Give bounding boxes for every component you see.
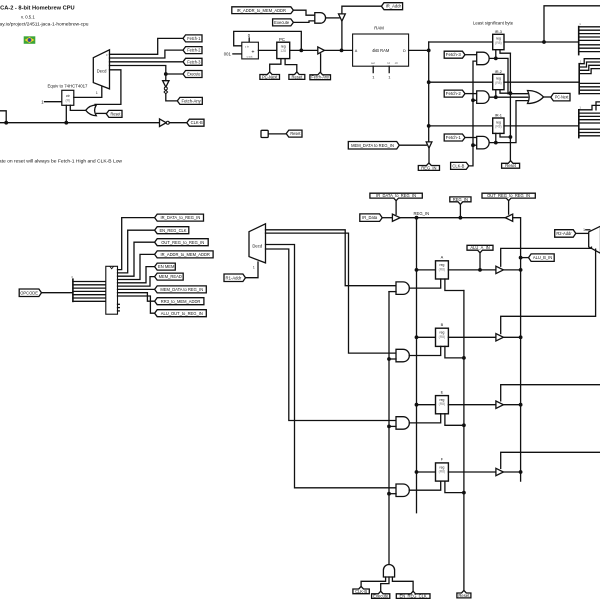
wire Execute to AND — [381, 577, 389, 591]
svg-text:Equiv to 74HCT4017: Equiv to 74HCT4017 — [48, 83, 88, 88]
wire IR-2 Q to splitter — [504, 81, 579, 83]
wire read-out2 to reg E output enable — [501, 385, 600, 401]
wire Execute tunnel to AND gate — [293, 21, 314, 23]
wire decoder read-out1 to reg B output enable — [501, 249, 596, 334]
svg-text:RAM: RAM — [374, 26, 384, 31]
wire buffer input from out bus — [513, 218, 521, 481]
wire decoder out0 to Fetch-1 tunnel — [110, 38, 184, 54]
wire CLK stub at left edge — [0, 111, 6, 123]
splitter SP3 stepped branch 0 — [579, 105, 600, 109]
junction EN rail to AND E — [387, 425, 391, 429]
svg-text:1: 1 — [96, 91, 98, 95]
splitter SP4 opcode — [72, 279, 74, 301]
wire RAM ld pin — [388, 66, 390, 72]
decoder U19 Decd register select read — [589, 226, 600, 253]
wire IR-3 branch to top edge bus — [544, 6, 600, 42]
svg-text:ay.io/project/24511-jaca-1-hom: ay.io/project/24511-jaca-1-homebrew-cpu — [0, 22, 89, 27]
tunnel PC-Next clock in — [260, 72, 280, 80]
svg-text:Least significant byte: Least significant byte — [473, 20, 514, 25]
svg-text:IR-1: IR-1 — [495, 113, 502, 118]
wire reset rail vertical — [463, 291, 465, 591]
splitter SP2 stepped branch 3 — [579, 69, 600, 74]
tunnel Execute out — [183, 71, 202, 78]
svg-text:ALU_B_IN: ALU_B_IN — [533, 255, 552, 260]
svg-text:1: 1 — [253, 265, 255, 269]
svg-text:tate on reset will always be F: tate on reset will always be Fetch-1 Hig… — [0, 158, 123, 163]
and-gate reg E clock — [396, 417, 409, 430]
wire REG_IN tunnel to bus — [459, 204, 461, 217]
junction Execute branch — [164, 72, 168, 76]
wire PC reset to Reset tunnel — [285, 59, 297, 72]
wire Fetch-3 to AND — [465, 54, 477, 56]
junction ALU_B_IN — [519, 256, 523, 260]
wire decoder out0 to reg A clock AND — [266, 230, 397, 286]
tunnel IR_DATA_to_REG_IN enable — [370, 193, 422, 201]
wire CLK-B to AND-2 — [473, 99, 477, 101]
svg-text:JACA-2 - 8-bit Homebrew CPU: JACA-2 - 8-bit Homebrew CPU — [0, 6, 75, 12]
register IR-3 — [493, 34, 504, 49]
tunnel EN MEM out — [155, 263, 176, 270]
svg-text:001: 001 — [224, 52, 232, 57]
tri-state buffer reg B to out bus — [496, 334, 504, 341]
tunnel Reset (counter) — [106, 110, 122, 117]
wire decoder out5 to counter reset OR gate — [95, 70, 121, 108]
svg-text:Fetch-Any: Fetch-Any — [311, 75, 329, 80]
tunnel Fetch-1 in — [444, 134, 465, 141]
svg-text:(R8): (R8) — [439, 470, 446, 474]
wire bus to reg E D input — [417, 404, 436, 406]
diamond junction marker — [164, 90, 168, 93]
wire ALU_A_IN tap — [479, 253, 481, 270]
svg-text:Reset: Reset — [505, 163, 517, 168]
tunnel IR_ADDR_to_MEM_ADDR out — [155, 251, 214, 258]
svg-text:ld: ld — [388, 61, 391, 65]
junction CLK stub — [4, 121, 8, 125]
register B — [436, 328, 449, 346]
svg-text:D: D — [403, 49, 406, 53]
tri-state buffer U9 PC to address bus — [318, 47, 325, 54]
wire EN_REG_CLK to AND — [392, 577, 413, 591]
junction IR-3 top branch — [542, 40, 546, 44]
splitter SP2 IR-2 byte — [578, 64, 580, 94]
svg-text:CLK-B: CLK-B — [191, 120, 203, 125]
wire decoder out RR3_to_MEM_ADDR — [118, 293, 155, 302]
junction data to IR-1 — [427, 124, 431, 128]
junction EN rail to AND B — [387, 357, 391, 361]
splitter SP2 branch 7 — [579, 93, 600, 95]
svg-text:IR-3: IR-3 — [495, 29, 502, 34]
svg-text:v. 0.5.1: v. 0.5.1 — [21, 15, 35, 20]
svg-text:R2-Addr: R2-Addr — [556, 231, 572, 236]
wire reg E reset stub — [445, 414, 464, 426]
wire PC output to buffer — [290, 49, 318, 51]
junction out bus reg E — [519, 403, 523, 407]
tunnel MEM_DATA to REG_IN out — [155, 286, 207, 293]
tunnel Fetch-Any out — [177, 97, 202, 104]
wire AND A output to reg clock — [409, 279, 440, 288]
svg-text:CLK-B: CLK-B — [355, 589, 367, 594]
wire decoder out IR_DATA_to_REG_IN — [118, 218, 155, 270]
junction REG_IN bus to reg E — [415, 403, 419, 407]
svg-text:Execute: Execute — [373, 594, 389, 599]
tunnel REG_IN in — [450, 197, 471, 205]
splitter SP3 branch 7 — [579, 132, 600, 134]
splitter SP4 branch 2 — [73, 287, 106, 289]
wire CLK-B to AND — [361, 577, 386, 586]
svg-text:(R8): (R8) — [439, 267, 446, 271]
wire reg A reset stub — [445, 279, 464, 291]
tunnel Execute bottom in — [372, 591, 390, 598]
wire IR-1 reset stub — [500, 133, 510, 137]
tunnel OUT_REG_to_REG_IN out — [155, 239, 209, 246]
splitter SP2 stepped branch 1 — [579, 62, 600, 67]
junction PC output feedback — [299, 49, 303, 53]
tunnel Fetch-2 out — [183, 47, 202, 54]
tunnel CLK-B in — [451, 162, 469, 169]
tunnel EN_REG_CLK out — [155, 227, 189, 234]
decoder U15 unused pin 1 — [118, 307, 120, 309]
svg-text:Fetch-3: Fetch-3 — [446, 52, 462, 57]
tunnel Reset (PC) — [289, 72, 305, 80]
register A — [436, 261, 449, 279]
splitter SP1 branch 6 — [579, 47, 600, 49]
wire Fetch-2 to AND — [465, 93, 477, 95]
wire AND E lower input from EN_REG_CLK rail — [389, 425, 396, 427]
tri-state buffer reg A to out bus — [496, 266, 504, 273]
wire constant to counter — [45, 101, 62, 103]
svg-text:CLK-B: CLK-B — [452, 164, 464, 169]
tri-state buffer reg F to out bus — [496, 468, 504, 475]
wire pin to Reset tunnel — [268, 133, 286, 135]
svg-text:IR_DATA_to_REG_IN: IR_DATA_to_REG_IN — [160, 215, 200, 220]
splitter SP1 branch 0 — [579, 26, 600, 28]
tunnel Fetch-1 out — [183, 35, 202, 42]
junction reset reg E — [462, 423, 466, 427]
wire IR_Addr to address buffer — [342, 6, 382, 14]
wire inverter to CLK-B tunnel — [169, 122, 187, 124]
tunnel ALU_B_IN out — [529, 254, 555, 262]
svg-text:PC-Next: PC-Next — [262, 74, 278, 79]
Brazil flag icon — [24, 36, 36, 44]
memory RAM 4kB — [353, 34, 409, 66]
tunnel IR_Data in — [360, 214, 382, 222]
svg-text:Decd: Decd — [97, 68, 107, 73]
svg-text:IR_Data: IR_Data — [362, 215, 378, 220]
wire PC clock to PC-Next tunnel — [270, 59, 281, 72]
tunnel Fetch-Any in — [310, 72, 331, 80]
svg-text:A: A — [441, 255, 444, 260]
wire IR-2 reset stub — [500, 90, 510, 94]
svg-text:RR3_to_MEM_ADDR: RR3_to_MEM_ADDR — [161, 299, 201, 304]
svg-text:IR_Addr: IR_Addr — [386, 4, 402, 9]
svg-text:Fetch-1: Fetch-1 — [187, 36, 201, 41]
wire decoder out3 to reg E clock AND — [266, 249, 397, 421]
decoder U15 unused pin 0 — [118, 303, 120, 305]
wire R2-Addr to decoder — [576, 232, 589, 234]
wire ALU_B_IN tap — [521, 257, 529, 259]
junction ALU_A_IN — [478, 268, 482, 272]
wire counter clock to CLK rail — [65, 105, 67, 122]
svg-text:OUT_REG_to_REG_IN: OUT_REG_to_REG_IN — [161, 240, 204, 245]
input pin clock square — [261, 130, 268, 137]
svg-text:c in: c in — [245, 44, 250, 48]
wire decoder out1 to Fetch-2 tunnel — [110, 50, 184, 58]
svg-text:Fetch-2: Fetch-2 — [187, 48, 201, 53]
junction CLK-B to AND-2 — [471, 98, 475, 102]
junction IR-1 clock — [494, 141, 498, 145]
junction REG_IN tunnel tap — [459, 216, 463, 220]
tunnel Reset (clock pin) — [286, 130, 302, 137]
svg-text:EN MEM: EN MEM — [158, 264, 175, 269]
splitter SP2 stepped branch 2 — [579, 65, 600, 70]
splitter SP3 branch 8 — [579, 135, 600, 137]
wire decoder out ALU_OUT_to_REG_IN — [118, 296, 155, 313]
wire data to IR-3 D — [429, 41, 493, 43]
junction REG_IN bus to register column — [415, 216, 419, 220]
svg-text:Fetch-3: Fetch-3 — [187, 59, 201, 64]
junction counter clock on CLK rail — [64, 121, 68, 125]
wire buffer B to out bus — [503, 336, 520, 338]
wire CLK-B rail up the IR column — [469, 61, 477, 166]
wire IR_Data to buffer — [382, 217, 392, 219]
svg-text:MEM_READ: MEM_READ — [159, 274, 182, 279]
register IR-1 — [493, 118, 504, 133]
wire IR-2 clock stub — [495, 90, 497, 98]
wire AND-2 output to IR-2 clock and OR — [489, 96, 528, 98]
wire AND B lower input from EN_REG_CLK rail — [389, 358, 396, 360]
wire buffer A to out bus — [503, 269, 520, 271]
wire decoder out2 to reg F clock AND — [266, 245, 397, 488]
wire AND-1 output to IR-1 clock and OR — [489, 101, 528, 143]
wire AND E output to reg clock — [409, 414, 440, 423]
tri-state buffer U10 mem data to REG_IN — [426, 142, 432, 148]
wire reg B Q to buffer — [448, 336, 496, 338]
svg-text:Execute: Execute — [274, 20, 290, 25]
wire reg F Q to buffer — [448, 471, 496, 473]
splitter SP2 branch 4 — [579, 82, 600, 84]
svg-text:Decd: Decd — [252, 243, 262, 248]
wire AND A lower input from EN_REG_CLK rail — [389, 291, 396, 293]
splitter SP3 branch 5 — [579, 122, 600, 124]
svg-text:1: 1 — [583, 228, 585, 232]
junction out bus reg A — [519, 268, 523, 272]
junction IR-2 reset — [509, 91, 513, 95]
tunnel IR_DATA_to_REG_IN out — [155, 214, 204, 221]
register F — [436, 463, 449, 481]
junction REG_IN bus to reg F — [415, 470, 419, 474]
splitter SP1 branch 1 — [579, 29, 600, 31]
splitter SP4 branch 4 — [73, 294, 106, 296]
wire OR output to counter reset pin — [70, 105, 85, 110]
wire RAM D to data node — [409, 49, 429, 51]
svg-text:Reset: Reset — [292, 74, 304, 79]
splitter SP1 branch 4 — [579, 39, 600, 41]
wire bus to reg B D input — [417, 336, 436, 338]
wire decoder out MEM_READ — [118, 277, 155, 287]
tunnel MEM_DATA to REG_IN enable — [348, 142, 399, 150]
wire decoder out1 to reg B clock AND — [266, 233, 397, 353]
wire AND F output to reg clock — [409, 481, 440, 490]
svg-text:(R8): (R8) — [439, 335, 446, 339]
svg-text:Fetch-1: Fetch-1 — [446, 135, 462, 140]
wire 001 to adder — [233, 53, 242, 55]
wire buffer to RAM A — [324, 49, 352, 51]
wire data to IR-1 D — [429, 125, 493, 127]
tunnel R2-Addr in — [555, 230, 576, 238]
tunnel OPCODE in — [19, 289, 41, 297]
junction CLK-B to AND-1 — [471, 143, 475, 147]
svg-text:MEM_DATA to REG_IN: MEM_DATA to REG_IN — [160, 287, 203, 292]
wire IR_ADDR tunnel to AND gate — [293, 10, 314, 15]
adder U8 PC+1 — [242, 42, 259, 59]
wire enable to buffer — [395, 201, 397, 215]
tunnel IR_ADDR_to_MEM_ADDR in — [232, 7, 294, 14]
wire decoder out EN MEM — [118, 267, 155, 283]
svg-text:B: B — [441, 322, 444, 327]
wire buffer E to out bus — [503, 404, 520, 406]
tunnel Reset bottom in — [457, 590, 471, 598]
wire Fetch-Any to PC buffer enable — [320, 54, 322, 72]
junction reset reg B — [462, 356, 466, 360]
svg-text:E: E — [441, 389, 444, 394]
wire RAM sel pin — [372, 66, 374, 72]
wire AND B output to reg clock — [409, 346, 440, 355]
wire bus to reg F D input — [417, 471, 436, 473]
wire decoder out MEM_DATA to REG_IN — [118, 288, 155, 290]
tri-state buffer U7 IR address to bus — [339, 14, 346, 21]
wire data to IR-2 D — [429, 81, 493, 83]
svg-text:sel: sel — [371, 61, 375, 65]
wire reg E Q to buffer — [448, 404, 496, 406]
junction data to IR-2 — [427, 80, 431, 84]
wire counter output to decoder select — [74, 87, 102, 98]
splitter SP3 branch 4 — [579, 119, 600, 121]
register PC — [277, 42, 290, 58]
tunnel Execute in — [273, 19, 294, 26]
wire carry-in to adder — [248, 38, 250, 42]
wire bus to reg A D input — [417, 269, 436, 271]
decoder U15 microcode IC — [106, 266, 118, 314]
splitter SP2 branch 6 — [579, 89, 600, 91]
tunnel Fetch-3 in — [444, 51, 465, 58]
svg-text:Fetch-2: Fetch-2 — [446, 91, 462, 96]
junction out bus reg F — [519, 470, 523, 474]
and-gate reg F clock — [396, 484, 409, 497]
tunnel ALU_OUT_to_REG_IN out — [155, 310, 207, 317]
register IR-2 — [493, 74, 504, 89]
svg-text:EN_REG_CLK: EN_REG_CLK — [159, 228, 186, 233]
junction REG_IN bus to reg A — [415, 268, 419, 272]
tunnel Fetch-2 in — [444, 90, 465, 97]
svg-text:(R8): (R8) — [495, 81, 502, 85]
svg-text:4kB RAM: 4kB RAM — [372, 48, 390, 53]
splitter SP1 branch 2 — [579, 33, 600, 35]
splitter SP1 IR-3 byte — [578, 27, 580, 55]
svg-text:OPCODE: OPCODE — [20, 290, 38, 295]
or-gate U14 PC-Next generator — [528, 91, 544, 104]
svg-text:128: 128 — [280, 49, 286, 53]
wire reg F reset stub — [445, 481, 464, 493]
splitter SP4 branch 3 — [73, 290, 106, 292]
splitter SP2 branch 5 — [579, 86, 600, 88]
svg-text:IR_DATA_to_REG_IN: IR_DATA_to_REG_IN — [376, 193, 416, 198]
wire PC feedback to adder — [234, 31, 302, 50]
wire decoder out3 to Execute tunnel — [110, 66, 166, 75]
decoder U16 Decd register select write — [249, 224, 266, 263]
wire REG_IN vertical bus — [416, 218, 418, 513]
svg-text:(R8): (R8) — [495, 125, 502, 129]
splitter SP4 branch 1 — [73, 284, 106, 286]
tunnel PC-Next out — [551, 93, 570, 101]
junction EN rail to AND F — [387, 492, 391, 496]
svg-text:ALU_A_IN: ALU_A_IN — [470, 245, 489, 250]
wire IR-3 clock stub — [495, 50, 497, 59]
wire decoder out EN_REG_CLK — [118, 230, 155, 273]
svg-text:PC: PC — [279, 37, 285, 42]
splitter SP1 branch 5 — [579, 44, 600, 46]
and-gate U11 IR-3 load — [477, 52, 489, 64]
wire decoder read-out0 to reg A output enable — [501, 247, 592, 266]
and-gate U6 address select — [315, 13, 326, 24]
svg-text:REG_IN: REG_IN — [414, 211, 430, 216]
and-gate U13 IR-1 load — [477, 136, 489, 149]
wire enable to buffer — [399, 144, 426, 146]
tunnel ALU_A_IN out — [467, 245, 493, 253]
junction IR-3 clock — [494, 57, 498, 61]
tunnel CLK-B (generated) — [187, 119, 204, 126]
splitter SP4 branch 0 — [73, 281, 106, 283]
svg-text:ALU_OUT_to_REG_IN: ALU_OUT_to_REG_IN — [161, 311, 203, 316]
svg-text:Reset: Reset — [458, 593, 470, 598]
wire EN_REG_CLK rail vertical — [388, 292, 390, 565]
wire adder to PC register — [258, 49, 276, 51]
wire R1-Addr to decoder select — [246, 262, 259, 278]
svg-text:Execute: Execute — [187, 72, 201, 77]
register E — [436, 396, 449, 414]
splitter SP2 stepped branch 0 — [579, 59, 600, 64]
junction REG_IN bus to reg B — [415, 335, 419, 339]
svg-text:(R8): (R8) — [439, 402, 446, 406]
wire data bus vertical — [428, 42, 430, 142]
wire reg A Q to buffer — [448, 269, 496, 271]
wire read-out3 to reg F output enable — [501, 452, 600, 468]
tunnel OUT_REG_to_REG_IN enable — [482, 193, 535, 201]
junction out bus reg B — [519, 335, 523, 339]
splitter SP3 stepped branch 1 — [596, 102, 600, 110]
or-gate U4 counter reset — [86, 105, 97, 116]
wire buffer output to RAM address rail — [341, 21, 343, 50]
svg-text:OUT_REG_to_REG_IN: OUT_REG_to_REG_IN — [487, 193, 530, 198]
wire buffer to REG_IN tunnel — [428, 148, 430, 163]
svg-text:R1-Addr: R1-Addr — [226, 275, 242, 280]
and-gate reg A clock — [396, 282, 409, 295]
svg-text:Reset: Reset — [290, 131, 301, 136]
svg-text:REG_IN: REG_IN — [421, 165, 436, 170]
svg-text:PC-Next: PC-Next — [555, 95, 569, 100]
svg-text:Fetch-Any: Fetch-Any — [182, 99, 202, 104]
splitter SP3 IR-1 byte — [578, 110, 580, 138]
junction IR-2 clock — [494, 95, 498, 99]
wire IR-3 Q to splitter — [504, 41, 579, 43]
wire decoder out OUT_REG_to_REG_IN — [118, 242, 155, 276]
svg-text:MEM_DATA to REG_IN: MEM_DATA to REG_IN — [351, 143, 394, 148]
junction IR-1 reset — [509, 135, 513, 139]
tunnel RR3_to_MEM_ADDR out — [155, 298, 204, 305]
wire reg B reset stub — [445, 346, 464, 358]
wire decoder out2 to Fetch-3 tunnel — [110, 61, 184, 63]
splitter SP3 branch 2 — [579, 112, 600, 114]
wire IR reset chain — [509, 53, 511, 161]
